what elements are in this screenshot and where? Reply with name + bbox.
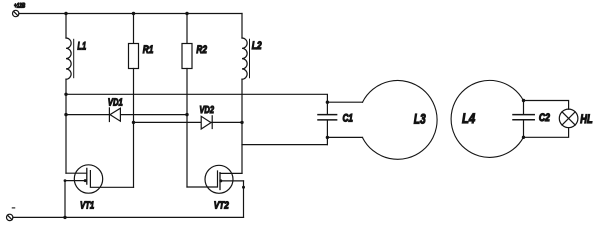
junction dot top rail R2 <box>185 12 188 15</box>
wire top rail <box>19 13 242 15</box>
svg-text:L2: L2 <box>252 40 262 52</box>
resistor R1 <box>129 14 139 188</box>
label minus <box>12 207 14 209</box>
svg-text:VT2: VT2 <box>214 200 229 212</box>
inductor L2 <box>242 14 250 174</box>
transistor VT2 <box>187 165 245 217</box>
junction dot VD1 left <box>64 113 67 116</box>
wire L3 top lead <box>327 101 362 103</box>
diode VD1 <box>66 108 187 122</box>
svg-text:L1: L1 <box>77 41 86 53</box>
junction dot bottom rail VT1 source <box>63 216 66 219</box>
wire L3 bottom lead <box>327 136 362 138</box>
diode VD2 <box>134 116 242 129</box>
terminal minus <box>7 214 13 220</box>
transistor VT1 <box>64 165 134 218</box>
svg-text:+12В: +12В <box>14 2 25 9</box>
wire tank top <box>66 94 327 114</box>
junction dot VD1 right <box>185 113 188 116</box>
lamp HL <box>559 109 578 128</box>
wire L4/HL top <box>523 101 568 110</box>
capacitor C1 <box>318 115 337 145</box>
induction coil L4 <box>451 80 523 157</box>
capacitor C2 <box>513 101 534 138</box>
junction dot VD2 right <box>240 121 243 124</box>
svg-text:C1: C1 <box>343 112 354 124</box>
resistor R2 <box>182 14 192 188</box>
svg-text:L3: L3 <box>414 111 426 127</box>
junction dot C2 top <box>522 99 525 102</box>
svg-text:C2: C2 <box>539 112 550 124</box>
junction dot top rail R1 <box>132 12 135 15</box>
wire L4/HL bottom <box>523 128 568 138</box>
svg-text:R1: R1 <box>143 44 154 56</box>
svg-text:L4: L4 <box>462 110 475 126</box>
induction coil L3 <box>363 81 438 160</box>
junction dot C2 bottom <box>522 136 525 139</box>
svg-text:HL: HL <box>580 114 592 126</box>
junction dot top rail L1 <box>64 12 67 15</box>
svg-text:VT1: VT1 <box>80 199 94 211</box>
inductor L1 <box>66 14 74 174</box>
junction dot VD2 left <box>132 121 135 124</box>
terminal +12V <box>13 10 19 16</box>
wire bottom rail <box>13 216 244 218</box>
junction dot tank top at L1 branch <box>64 93 67 96</box>
junction dot C1 bottom <box>326 136 329 139</box>
svg-text:VD1: VD1 <box>108 97 123 109</box>
wire tank bottom <box>242 144 327 146</box>
svg-text:VD2: VD2 <box>199 104 214 116</box>
svg-text:R2: R2 <box>196 44 207 56</box>
junction dot C1 top <box>326 101 329 104</box>
